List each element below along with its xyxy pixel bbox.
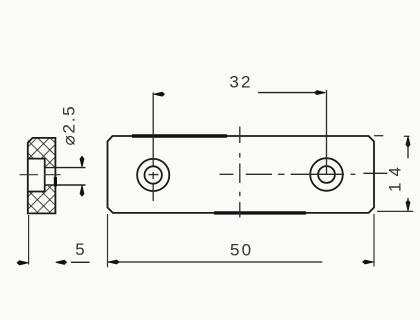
dim 32: dimension line right part with arrow	[258, 92, 325, 94]
dim 50: dimension line	[108, 261, 322, 263]
section hatch bottom band	[28, 192, 56, 214]
dim 14: bottom extension line	[377, 210, 413, 212]
thick segment top edge	[132, 134, 227, 137]
left hole horizontal center dash	[149, 174, 159, 176]
dim 5: line under text	[71, 261, 90, 263]
dim 14: top extension line	[374, 135, 383, 137]
side view body outline	[28, 138, 56, 214]
dim 14: vertical dimension line with arrows	[406, 136, 410, 147]
svg-text:32: 32	[229, 72, 252, 91]
svg-text:50: 50	[230, 240, 253, 259]
section hatch right strip upper	[45, 159, 56, 168]
svg-text:14: 14	[386, 161, 405, 192]
right hole inner circle	[318, 166, 335, 183]
svg-text:⌀2.5: ⌀2.5	[60, 104, 79, 145]
small hole upper edge / extension line	[45, 167, 86, 169]
dia 2.5 dim: lower arrow	[81, 186, 83, 196]
left hole inner circle	[145, 166, 162, 183]
section hatch top band	[28, 138, 56, 159]
dim 5: left outside arrow	[17, 261, 28, 265]
thick segment bottom edge	[214, 211, 306, 214]
left hole outer circle	[137, 159, 169, 191]
right hole outer circle	[310, 158, 343, 191]
side view centerline	[20, 174, 39, 176]
svg-text:5: 5	[75, 240, 84, 259]
dim 5: right outside arrow	[56, 260, 67, 264]
extension line below left edge	[28, 215, 30, 265]
small hole lower edge / extension line	[45, 184, 86, 186]
horizontal centerline dashes	[220, 173, 234, 175]
dia 2.5 dim: vertical dim line with outside arrows	[81, 156, 83, 166]
dim 50: extension lines	[107, 214, 109, 267]
plate outline	[108, 136, 375, 213]
dim 32: left arrow	[154, 92, 165, 96]
section hatch right strip lower	[45, 185, 56, 192]
vertical center dash-dot line	[239, 127, 241, 144]
left hole vertical centerline / extension	[152, 93, 154, 167]
counterbore notch outline	[28, 159, 45, 192]
right hole vertical centerline / extension	[326, 90, 328, 175]
thick edge segment right side	[54, 177, 57, 187]
